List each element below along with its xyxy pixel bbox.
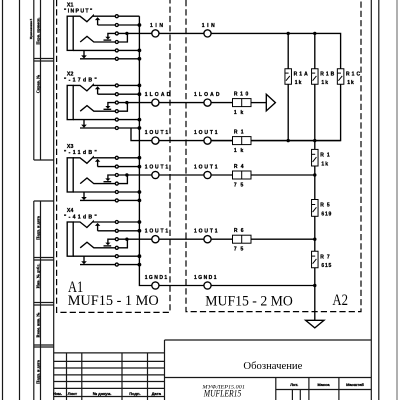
wire 1OUT1 [159, 140, 204, 142]
svg-text:R1B: R1B [320, 71, 334, 77]
svg-text:MUF15 - 1 МО: MUF15 - 1 МО [68, 293, 159, 309]
junction 1OUT1b [313, 173, 316, 176]
svg-text:MUF15 - 2 МО: MUF15 - 2 МО [205, 293, 293, 309]
resistor R1B [312, 69, 319, 85]
wire R1v to 1OUT1b [314, 166, 316, 200]
svg-text:Изм.: Изм. [53, 391, 62, 396]
svg-text:1k: 1k [295, 80, 302, 86]
svg-text:Взам. инв. №: Взам. инв. № [35, 313, 40, 338]
bus junctions [138, 23, 142, 266]
junction 1OUT1c [313, 238, 316, 241]
svg-text:Справ. №: Справ. № [35, 75, 40, 93]
terminal 1GND1 A1 side [152, 282, 159, 289]
svg-text:1k: 1k [321, 80, 328, 86]
svg-text:1IN: 1IN [150, 23, 163, 29]
svg-text:Перв. примен.: Перв. примен. [35, 17, 40, 44]
terminal 1OUT1 A1 side [152, 171, 159, 178]
junction R1A/1OUT1 [287, 139, 290, 142]
terminal 1OUT1 A1 side [152, 236, 159, 243]
wire R1B to 1OUT1 [314, 84, 316, 149]
wire 1OUT1b [211, 174, 232, 176]
wire 1GND1 [211, 285, 314, 287]
paper left edge [2, 0, 4, 400]
module A1 dashed box [57, 0, 170, 312]
resistor R1 [312, 149, 319, 166]
svg-text:Подп.: Подп. [129, 391, 140, 396]
svg-text:1k: 1k [321, 161, 328, 167]
svg-text:1GND1: 1GND1 [145, 275, 168, 281]
svg-text:Обозначение: Обозначение [243, 360, 302, 372]
wire R5 to 1OUT1c [314, 216, 316, 251]
svg-text:№ докум.: № докум. [93, 391, 112, 396]
svg-text:615: 615 [321, 263, 331, 269]
wire R10 to buffer [251, 102, 266, 104]
resistor R1A [285, 69, 292, 85]
svg-text:Масса: Масса [317, 382, 330, 387]
title block right section [275, 378, 277, 400]
connector X3 [67, 156, 151, 202]
svg-text:Лит.: Лит. [290, 382, 298, 387]
svg-text:A2: A2 [332, 292, 348, 309]
svg-text:X1: X1 [67, 2, 74, 8]
wire 1IN bus A2 [211, 33, 340, 69]
inner right border [378, 0, 380, 400]
top margin table [33, 0, 35, 160]
wire R1C to 1OUT1 [211, 84, 340, 140]
resistor R6 [233, 235, 252, 243]
ground bus wire [139, 16, 151, 285]
terminal 1GND1 A2 side [204, 282, 211, 289]
svg-text:Приложение 5: Приложение 5 [29, 18, 33, 39]
svg-text:X2: X2 [67, 72, 74, 78]
wire R1A to 1OUT1 [287, 84, 289, 140]
junction 1GND1 [313, 284, 316, 287]
terminal 1LOAD A2 side [204, 99, 211, 106]
svg-text:1IN: 1IN [202, 23, 215, 29]
title block designation cell [165, 339, 372, 341]
wire to ground [314, 286, 316, 321]
svg-text:X4: X4 [67, 208, 74, 214]
svg-text:619: 619 [321, 212, 331, 218]
terminal 1OUT1 A1 side [152, 137, 159, 144]
svg-text:1GND1: 1GND1 [194, 275, 217, 281]
wire R1 out [211, 140, 232, 142]
connector X4 [67, 221, 151, 267]
frame right line [370, 0, 372, 400]
terminal 1LOAD A1 side [152, 99, 159, 106]
wire 1IN [159, 32, 204, 34]
svg-text:X3: X3 [67, 144, 74, 150]
junction 1IN/R1A [287, 32, 290, 35]
title block left table [54, 352, 165, 354]
paper right edge [396, 0, 398, 400]
wire 1LOAD [211, 102, 232, 104]
wire 1OUT1 [159, 174, 204, 176]
resistor R4 [233, 171, 252, 179]
resistor R10 [233, 99, 252, 107]
svg-text:R10: R10 [234, 92, 249, 98]
junction R1B/1OUT1 [313, 139, 316, 142]
resistor R1 [233, 137, 252, 145]
resistor R5 [312, 200, 319, 217]
terminal 1OUT1 A2 side [204, 236, 211, 243]
terminal 1OUT1 A2 side [204, 171, 211, 178]
wire 1OUT1c [211, 238, 232, 240]
buffer arrow [266, 94, 275, 111]
wire tap to 1OUT1 [131, 128, 152, 141]
connector X1 [67, 15, 151, 61]
terminal 1OUT1 A2 side [204, 137, 211, 144]
wire 1LOAD [159, 102, 204, 104]
svg-text:Инв. № дубл.: Инв. № дубл. [35, 264, 40, 289]
svg-text:MUFLER15: MUFLER15 [203, 390, 241, 400]
resistor R1C [337, 69, 344, 85]
ground [306, 320, 324, 328]
svg-text:"INPUT": "INPUT" [64, 9, 93, 15]
terminal 1IN A1 side [152, 30, 159, 37]
wire 1OUT1a segs [211, 140, 232, 142]
wire 1OUT1 [159, 238, 204, 240]
svg-text:Подп. и дата: Подп. и дата [35, 359, 40, 384]
resistor R7 [312, 251, 319, 268]
bottom margin table [33, 201, 35, 400]
svg-text:R1C: R1C [346, 71, 360, 77]
svg-text:Дата: Дата [152, 391, 162, 396]
svg-text:1k: 1k [347, 80, 354, 86]
wire 1GND1 [159, 285, 204, 287]
module A2 dashed box [186, 0, 361, 312]
terminal 1IN A2 side [204, 30, 211, 37]
frame left line [53, 0, 55, 400]
wire R7 to 1GND1 [314, 268, 316, 286]
connector X2 [67, 84, 151, 130]
svg-text:Лист: Лист [68, 391, 77, 396]
svg-text:R1A: R1A [294, 71, 308, 77]
inner left border [19, 0, 21, 400]
svg-text:Масштаб: Масштаб [346, 382, 364, 387]
junction 1IN/R1B [313, 32, 316, 35]
svg-text:Подп. и дата: Подп. и дата [35, 215, 40, 240]
